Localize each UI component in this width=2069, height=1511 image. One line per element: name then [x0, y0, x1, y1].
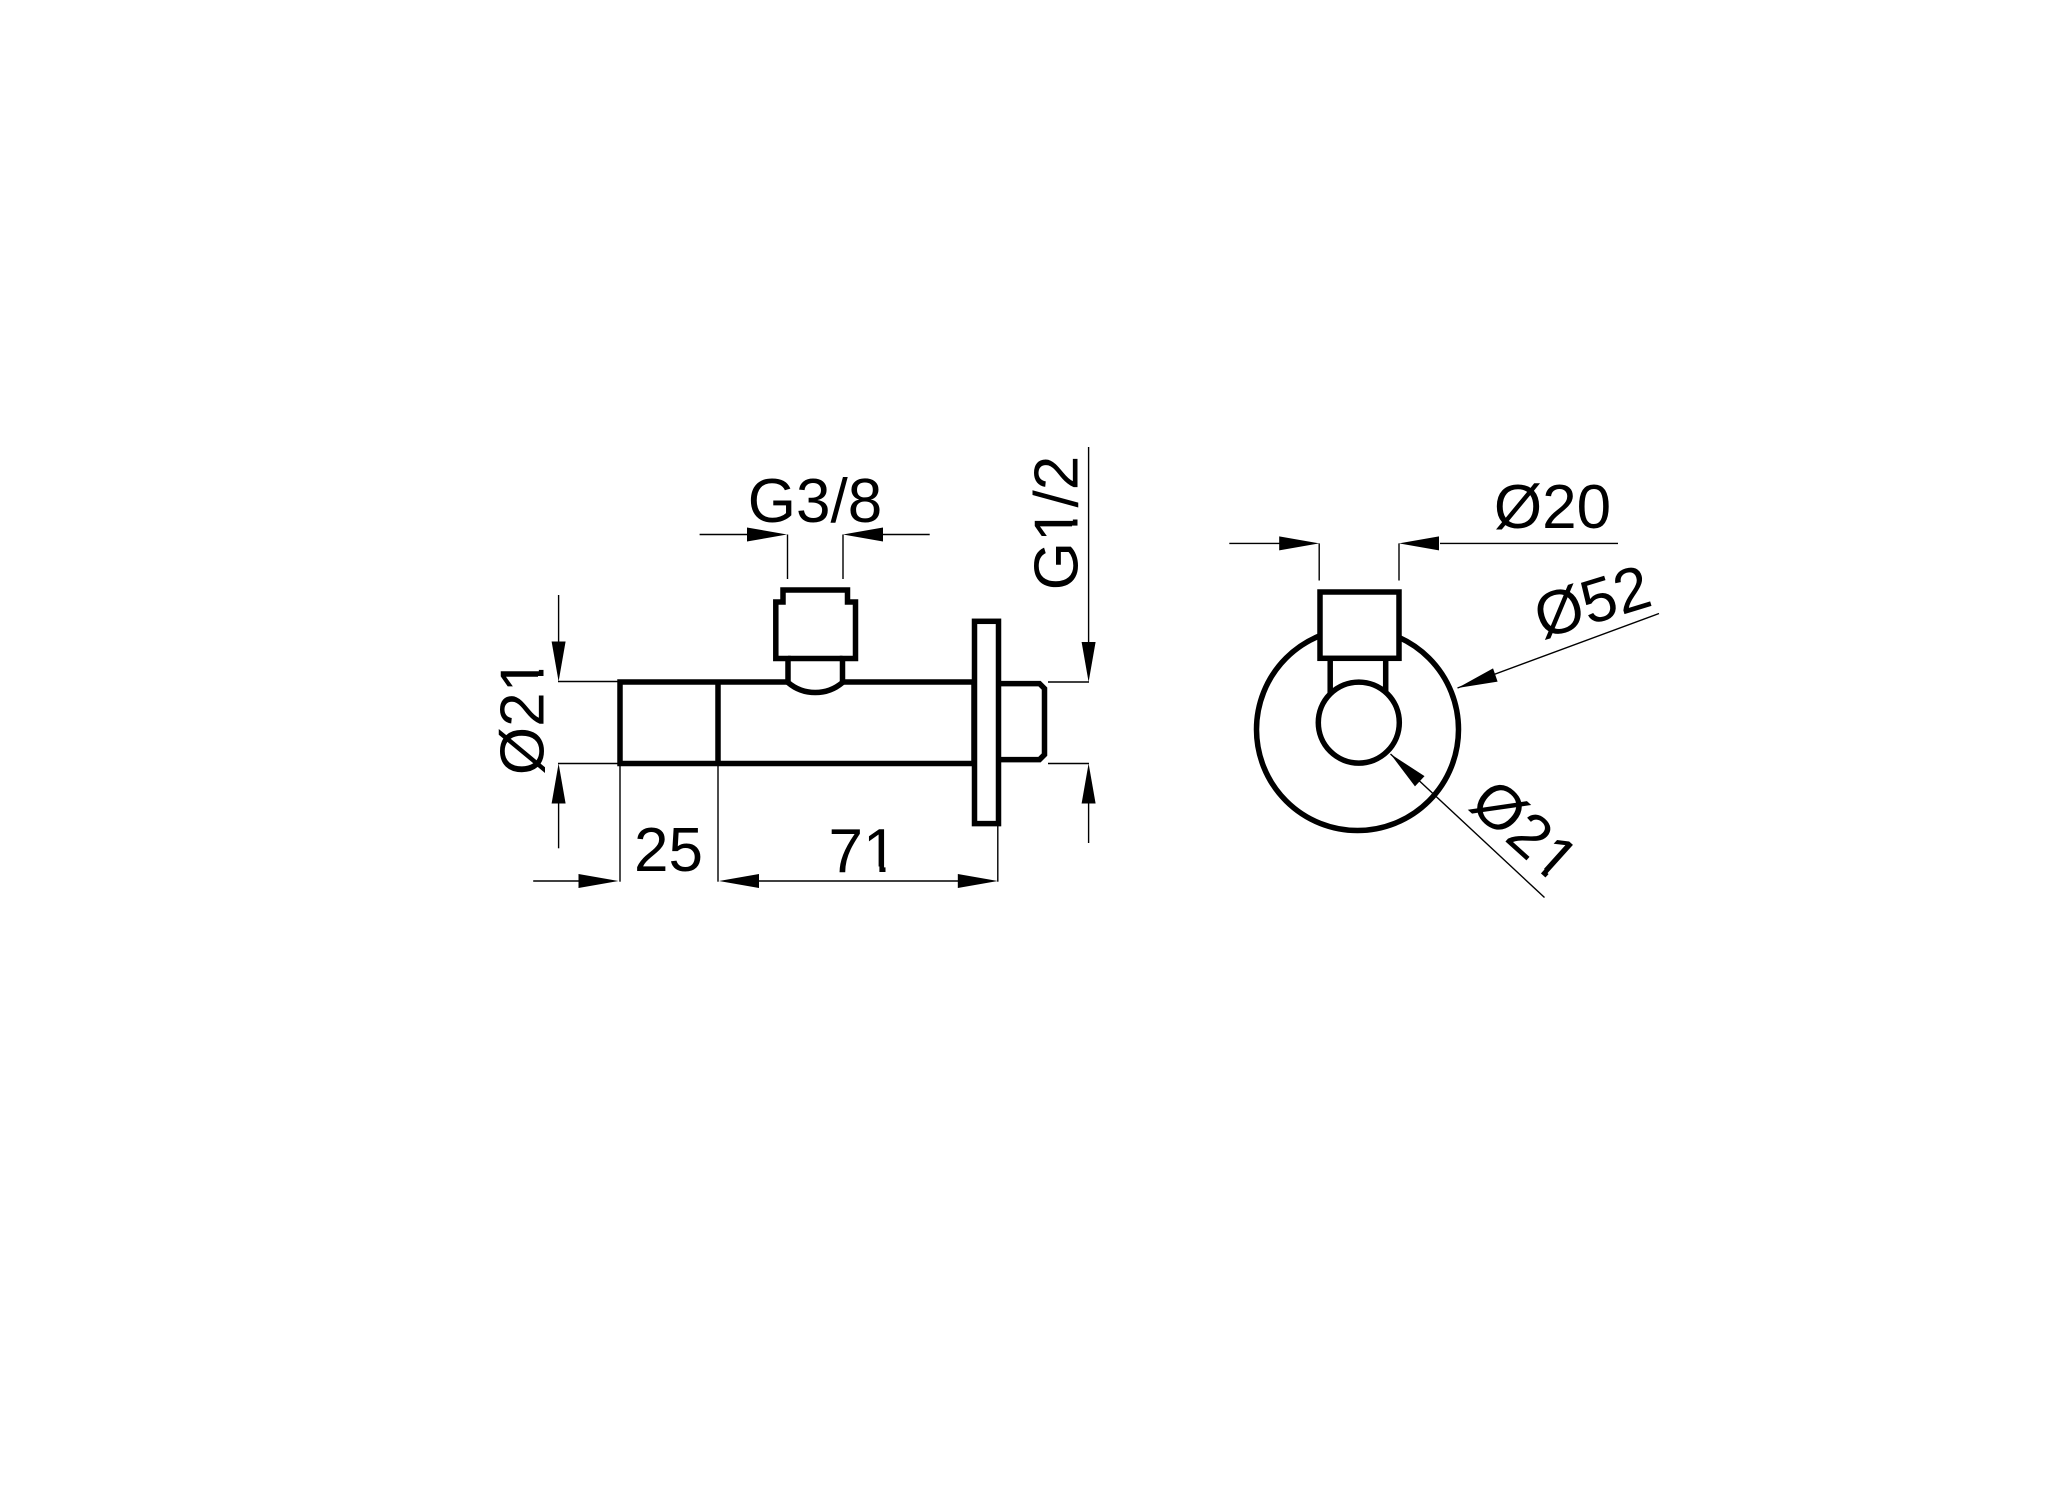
G3/8 dim line left tail	[700, 534, 747, 536]
extension line at body left end	[619, 766, 621, 882]
G3/8 extension line left	[787, 535, 789, 580]
svg-text:Ø52: Ø52	[1526, 552, 1658, 652]
Dia20 dim line right tail	[1440, 542, 1618, 544]
G1/2 extension line bottom	[1048, 763, 1089, 765]
Dia21 dim line upper	[558, 595, 560, 643]
G1/2 top arrow	[1082, 642, 1096, 682]
Dia20 dim line left tail	[1229, 542, 1281, 544]
25 dim line tail	[533, 880, 580, 882]
Dia21 leader line (front view)	[1391, 754, 1545, 898]
Dia21 leader arrow (front view)	[1386, 749, 1425, 787]
wall flange (side view)	[975, 621, 999, 823]
G1/2 extension line top	[1048, 681, 1089, 683]
Dia52 leader line	[1458, 614, 1660, 689]
Dia21 dim line lower	[558, 802, 560, 848]
label 71	[829, 817, 898, 886]
svg-text:Ø21: Ø21	[1458, 766, 1591, 896]
71 right arrow	[958, 874, 998, 888]
extension line at body divider	[717, 766, 719, 882]
body inlet-cap divider line	[715, 682, 721, 764]
25 left arrow	[579, 874, 619, 888]
bonnet base line	[788, 656, 843, 662]
bonnet cap G3/8 (side view)	[776, 590, 856, 693]
svg-text:Ø21: Ø21	[489, 658, 558, 775]
neck right line (front view)	[1383, 658, 1389, 700]
Dia21 extension line bottom	[558, 763, 619, 765]
valve body (side view)	[620, 682, 974, 764]
G3/8 dim line right tail	[883, 534, 930, 536]
71 left arrow	[719, 874, 759, 888]
ball circle Dia21 (front view)	[1318, 682, 1399, 763]
G3/8 extension line right	[842, 535, 844, 580]
Dia21 bottom arrow	[552, 764, 566, 804]
cap square (front view)	[1320, 592, 1399, 658]
Dia20 extension line right	[1398, 543, 1400, 580]
G1/2 bottom arrow	[1082, 764, 1096, 804]
svg-text:G3/8: G3/8	[748, 467, 882, 536]
Dia21 extension line top	[558, 681, 619, 683]
extension line at flange	[997, 826, 999, 882]
flange circle Dia52 (front view)	[1257, 629, 1459, 831]
label G1/2	[1023, 456, 1092, 590]
outlet nipple G1/2 (side view)	[996, 684, 1045, 760]
Dia20 left arrow	[1279, 536, 1319, 550]
G3/8 left arrow	[747, 528, 787, 542]
svg-text:71: 71	[829, 817, 898, 886]
G1/2 dim line upper	[1088, 447, 1090, 644]
Dia52 leader arrow	[1455, 668, 1497, 694]
svg-text:G1/2: G1/2	[1023, 456, 1092, 590]
label Dia21 (side view)	[489, 658, 558, 775]
Dia20 right arrow	[1399, 536, 1439, 550]
71 dim line	[757, 880, 960, 882]
Dia21 top arrow	[552, 642, 566, 682]
neck left line (front view)	[1327, 658, 1333, 700]
Dia20 extension line left	[1318, 543, 1320, 580]
svg-text:25: 25	[634, 816, 703, 885]
G1/2 dim line lower	[1088, 802, 1090, 844]
svg-text:Ø20: Ø20	[1494, 473, 1611, 542]
label Dia21 (front view)	[1458, 766, 1591, 896]
G3/8 right arrow	[843, 528, 883, 542]
